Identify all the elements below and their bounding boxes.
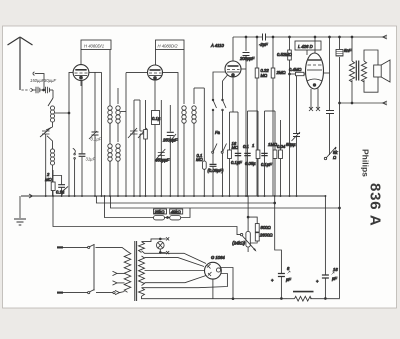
svg-text:(0.05µF): (0.05µF): [208, 168, 225, 173]
svg-text:0.04: 0.04: [277, 144, 286, 149]
svg-text:MΩ: MΩ: [232, 145, 239, 150]
svg-text:µF: µF: [332, 276, 337, 281]
svg-text:1: 1: [252, 143, 254, 148]
svg-text:0.4MΩ: 0.4MΩ: [289, 67, 302, 72]
svg-text:H 4080D/2: H 4080D/2: [158, 44, 179, 49]
svg-text:0.52MΩ: 0.52MΩ: [277, 52, 293, 57]
svg-text:2600Ω: 2600Ω: [259, 233, 273, 238]
svg-text:A 4110: A 4110: [210, 43, 224, 48]
svg-text:836 A: 836 A: [367, 183, 384, 226]
svg-text:(24kΩ): (24kΩ): [232, 241, 245, 246]
svg-text:-2µF: -2µF: [259, 42, 268, 47]
svg-text:450µµF: 450µµF: [155, 158, 170, 163]
svg-text:50µµ: 50µµ: [286, 142, 296, 147]
svg-text:2MΩ: 2MΩ: [276, 70, 287, 75]
svg-text:16: 16: [333, 267, 338, 272]
svg-text:200µµF: 200µµF: [239, 56, 255, 61]
svg-text:0.05µ: 0.05µ: [245, 161, 256, 166]
svg-text:H 4080D/1: H 4080D/1: [84, 44, 104, 49]
svg-text:31µF: 31µF: [86, 157, 96, 162]
svg-text:49kΩ: 49kΩ: [171, 210, 182, 215]
svg-text:250µµF: 250µµF: [162, 138, 178, 143]
svg-text:MΩ: MΩ: [45, 177, 52, 182]
svg-text:0.1µF: 0.1µF: [231, 160, 242, 165]
svg-text:5nF: 5nF: [344, 48, 352, 53]
svg-text:MΩ: MΩ: [261, 73, 268, 78]
svg-text:800Ω: 800Ω: [261, 225, 272, 230]
svg-text:MΩ: MΩ: [196, 157, 203, 162]
svg-text:L 426 D: L 426 D: [298, 44, 313, 49]
svg-text:0.1µF: 0.1µF: [91, 137, 102, 142]
svg-text:Philips: Philips: [361, 149, 371, 177]
svg-text:G 1064: G 1064: [211, 255, 225, 260]
svg-text:Fa: Fa: [215, 130, 221, 135]
svg-text:0.1µ: 0.1µ: [56, 190, 65, 195]
svg-text:30µµF: 30µµF: [44, 78, 56, 83]
svg-text:µF: µF: [286, 277, 291, 282]
svg-text:0.1µF: 0.1µF: [261, 162, 272, 167]
svg-text:0.1: 0.1: [243, 144, 249, 149]
svg-text:0.1µ: 0.1µ: [152, 116, 161, 121]
svg-text:25kΩ: 25kΩ: [154, 210, 166, 215]
svg-text:150µµF: 150µµF: [30, 78, 45, 83]
